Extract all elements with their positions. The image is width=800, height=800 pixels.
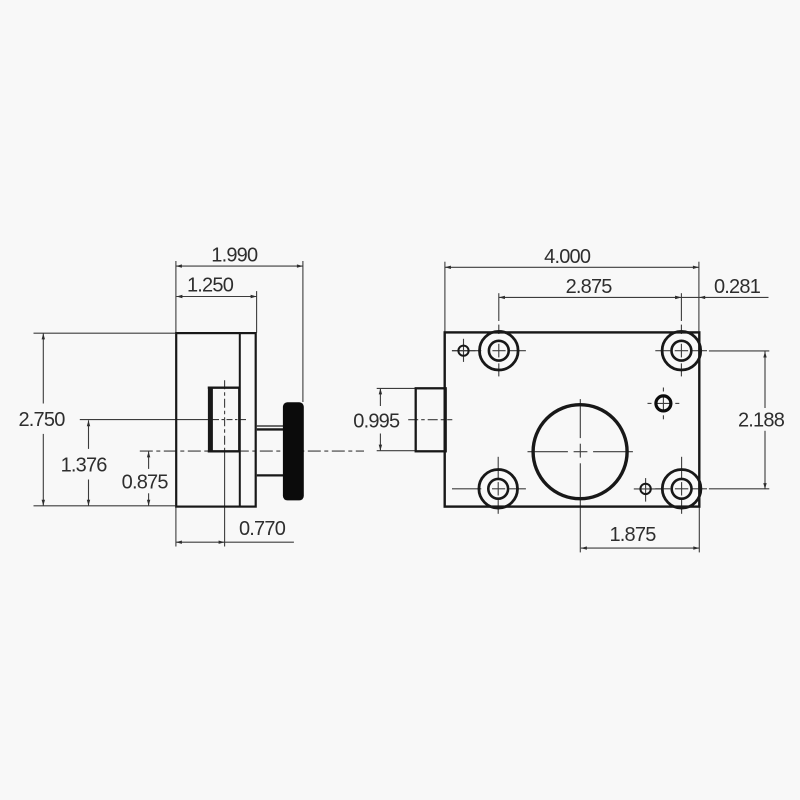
svg-text:0.281: 0.281 <box>714 276 761 298</box>
svg-text:1.875: 1.875 <box>609 524 656 546</box>
svg-text:0.995: 0.995 <box>353 411 400 433</box>
svg-text:1.250: 1.250 <box>187 274 234 296</box>
svg-text:1.990: 1.990 <box>211 245 258 267</box>
svg-text:0.770: 0.770 <box>239 518 286 540</box>
svg-text:2.750: 2.750 <box>18 409 65 431</box>
svg-text:2.188: 2.188 <box>738 409 785 431</box>
svg-text:2.875: 2.875 <box>566 276 613 298</box>
svg-text:0.875: 0.875 <box>122 472 169 494</box>
svg-text:1.376: 1.376 <box>61 455 108 477</box>
svg-text:4.000: 4.000 <box>544 246 591 268</box>
